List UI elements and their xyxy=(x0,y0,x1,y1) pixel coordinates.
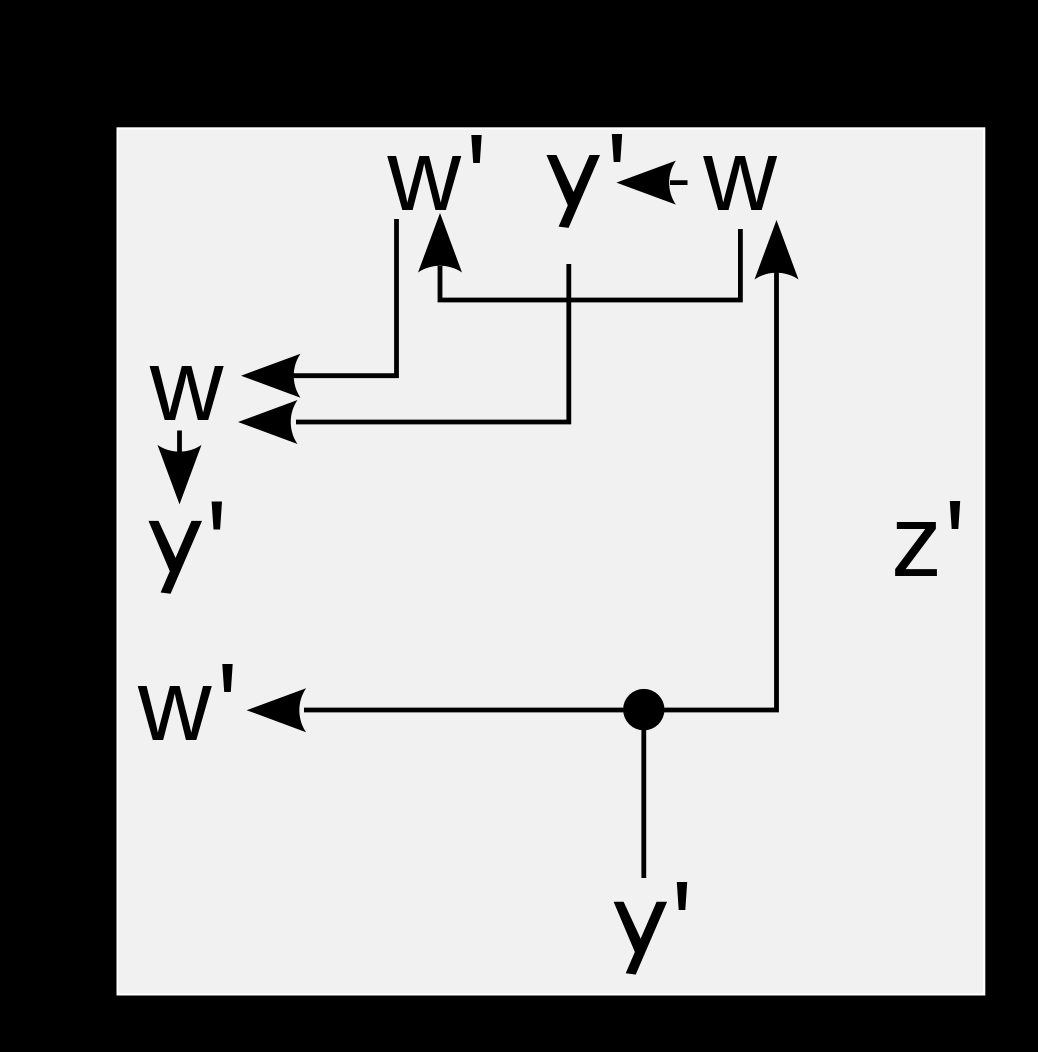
svg-text:w: w xyxy=(702,118,777,232)
label right z' : prime xyxy=(950,501,960,529)
arrowhead down into left y' xyxy=(158,445,202,505)
label left y' : letter xyxy=(149,521,203,594)
wire C: from below top y' down and left to left w xyxy=(296,264,569,422)
svg-text:z: z xyxy=(891,484,942,598)
wire E: tail of small arrow left w to left y' xyxy=(177,431,182,454)
junction dot xyxy=(623,689,664,730)
svg-text:w: w xyxy=(137,648,212,762)
wire D: tail of small arrow y' from w xyxy=(670,180,688,185)
wire A: from below top w' down and left to left w xyxy=(292,219,397,376)
wire F: bottom run from w' arrow through junction, up to top w xyxy=(304,268,777,710)
arrowhead up into top w xyxy=(755,220,799,280)
wire B: from below top w down, left, then up to top w' xyxy=(440,229,740,300)
label top w' : prime xyxy=(471,135,481,163)
wire G: stub from junction dot down to bottom y' xyxy=(641,710,646,878)
panel halo xyxy=(117,127,986,995)
svg-text:w: w xyxy=(386,118,461,232)
label top y' : prime xyxy=(612,134,622,162)
arrowhead into left w (lower) xyxy=(238,400,298,444)
label bottom y' : prime xyxy=(677,882,687,910)
label bottom-left w' : prime xyxy=(222,664,232,692)
label top y' : letter xyxy=(547,155,601,228)
arrowhead into bottom w' xyxy=(247,688,307,732)
arrowhead into left w (upper) xyxy=(241,354,301,398)
svg-text:w: w xyxy=(149,328,224,442)
panel xyxy=(119,130,983,994)
arrowhead up into top w' xyxy=(418,213,462,273)
label left y' : prime xyxy=(212,502,222,530)
arrowhead of small arrow toward top y' xyxy=(616,161,676,205)
label bottom y' : letter xyxy=(614,902,668,975)
